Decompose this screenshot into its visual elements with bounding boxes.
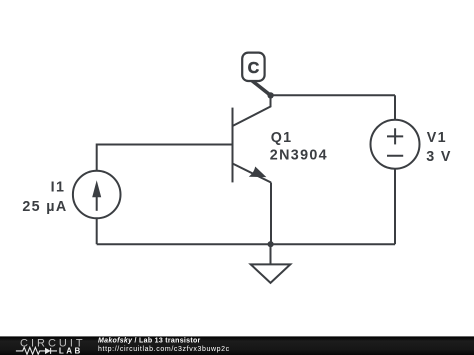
footer bar <box>0 336 474 355</box>
wire V1 bottom lead <box>394 169 396 245</box>
svg-text:Q1: Q1 <box>271 130 293 146</box>
svg-text:2N3904: 2N3904 <box>270 148 328 164</box>
voltage source V1 <box>371 120 420 169</box>
collector junction node <box>267 92 273 98</box>
svg-text:25 µA: 25 µA <box>22 199 67 215</box>
node C flag <box>242 53 270 96</box>
wire bottom rail <box>97 243 395 245</box>
wire base (I1 top to Q1 base) <box>97 145 232 171</box>
svg-text:C: C <box>248 60 259 77</box>
svg-text:http://circuitlab.com/c3zfvx3b: http://circuitlab.com/c3zfvx3buwp2c <box>98 346 230 353</box>
svg-text:Makofsky / Lab 13 transistor: Makofsky / Lab 13 transistor <box>98 338 201 345</box>
svg-text:3 V: 3 V <box>426 149 452 165</box>
svg-text:LAB: LAB <box>59 347 83 355</box>
CircuitLab logo <box>16 337 86 355</box>
ground junction node <box>268 241 274 247</box>
current source I1 <box>73 171 121 219</box>
svg-text:I1: I1 <box>51 180 66 196</box>
wire V1 top lead <box>394 95 396 119</box>
ground <box>251 244 291 283</box>
svg-text:V1: V1 <box>427 130 447 146</box>
wire collector rail <box>271 94 396 96</box>
transistor Q1 <box>233 95 272 182</box>
wire I1 bottom lead <box>96 218 98 244</box>
wire emitter lead <box>270 183 272 245</box>
